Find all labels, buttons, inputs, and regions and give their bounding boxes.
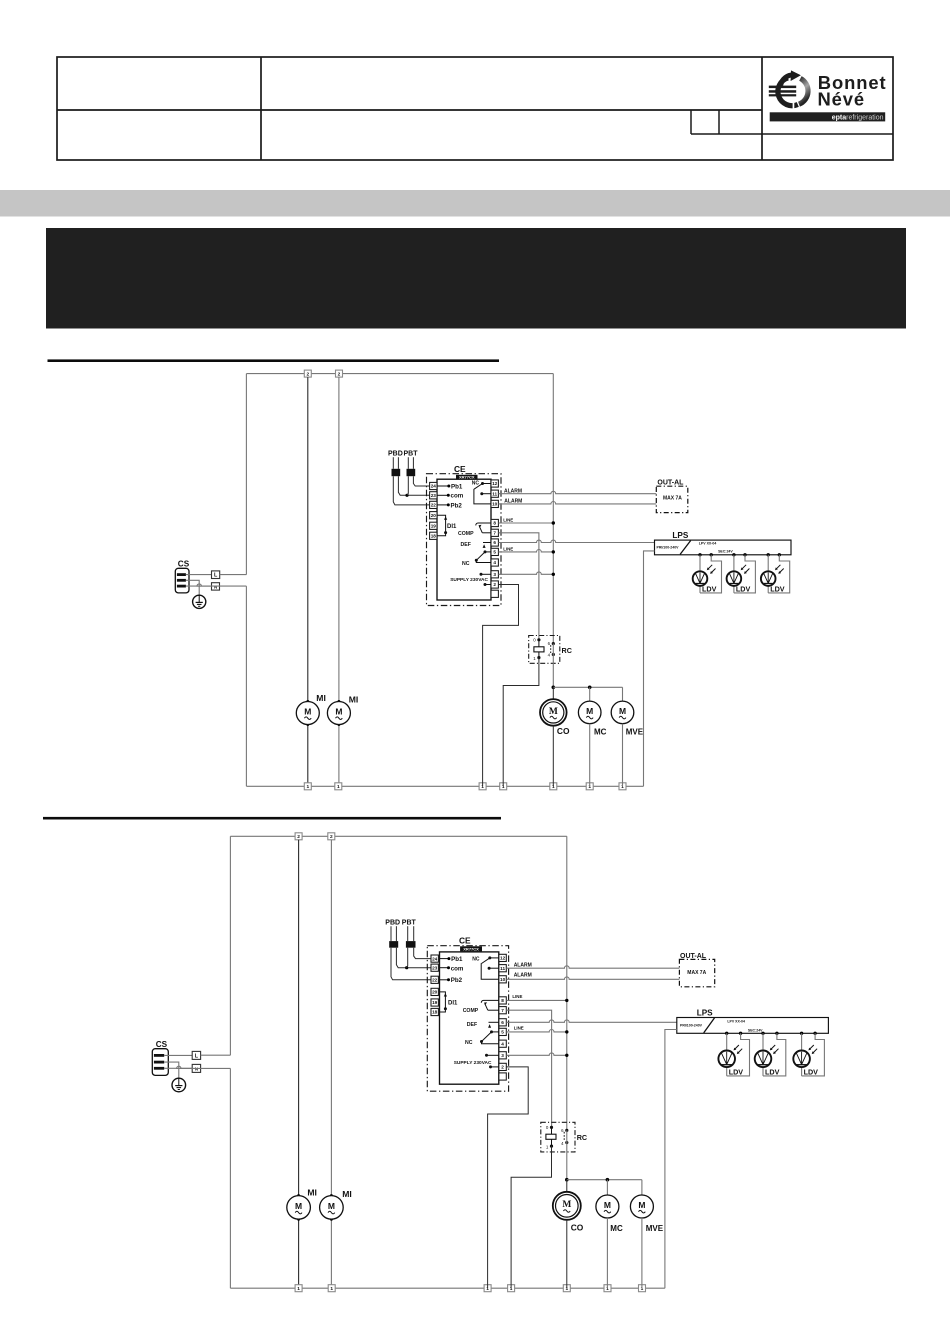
wire pin2 supply to neutral bus [488, 1067, 529, 1288]
probe PBD leads [392, 457, 394, 469]
wire pin5 LINE to main line [498, 550, 553, 552]
connector CS L pin [177, 573, 186, 576]
wire MI1 return drop [298, 1219, 300, 1288]
relay RC coil leads [538, 640, 540, 658]
title block horizontal divider [57, 109, 762, 111]
node LDV1 return dot [710, 553, 713, 556]
terminal N [192, 1064, 200, 1072]
node LDV3 return dot [778, 553, 781, 556]
svg-text:3: 3 [501, 1053, 504, 1058]
wire pin8 LINE to main line [506, 999, 567, 1001]
wire LDV3 bottom stem [801, 1067, 803, 1076]
wire alarm NO pin10 to OUT-AL [498, 502, 656, 504]
net Pb1 internal lead [440, 958, 450, 960]
svg-text:CE: CE [454, 464, 466, 474]
relay RC dash-dot box [529, 636, 560, 664]
connector CS body [152, 1049, 168, 1076]
title block small cell divider 1 [690, 110, 692, 134]
svg-text:PBT: PBT [404, 451, 419, 458]
pin blank terminal square [491, 590, 498, 597]
wire PBT to com junction [407, 948, 408, 968]
node MI1 top connection dot [306, 700, 309, 703]
module OUT-AL alarm output box [679, 959, 714, 986]
svg-text:LDV: LDV [765, 1067, 780, 1076]
relay alarm common lead pin 11 [488, 967, 499, 970]
svg-text:ALARM: ALARM [514, 972, 532, 978]
pin 18 terminal square [431, 1008, 438, 1015]
svg-text:PRI/100-240V: PRI/100-240V [680, 1023, 703, 1027]
svg-text:OUT-AL: OUT-AL [680, 953, 707, 960]
svg-text:6: 6 [493, 540, 496, 545]
svg-text:MC: MC [594, 727, 607, 736]
node motor branch dot [552, 686, 556, 690]
svg-text:4: 4 [501, 1041, 504, 1046]
pin 8 terminal square [491, 519, 498, 526]
wire CO return [566, 1220, 568, 1288]
wire pin3 supply to main line [498, 572, 553, 574]
node LDV3 feed dot [767, 553, 770, 556]
supply lead pin 3 [480, 573, 492, 576]
relay RC coil [546, 1134, 556, 1139]
controller CE dash-dot enclosure [427, 474, 502, 606]
label XR77CX model plate [460, 946, 482, 951]
lamp LDV2 [727, 565, 750, 586]
svg-text:11: 11 [500, 966, 505, 971]
svg-text:DEF: DEF [467, 1022, 477, 1028]
svg-text:4: 4 [548, 653, 551, 658]
wire alarm NC pin11 to OUT-AL [498, 491, 656, 493]
svg-text:SEC:24V: SEC:24V [748, 1029, 763, 1033]
svg-text:MI: MI [316, 693, 326, 703]
svg-text:PBT: PBT [402, 920, 417, 927]
motor MI2 (fan motor) [320, 1196, 344, 1220]
section heading rule 1 [48, 359, 500, 362]
net Pb2 internal lead [440, 979, 450, 981]
svg-text:XR77CX: XR77CX [459, 475, 475, 480]
node 1 junction square 4 [500, 783, 507, 790]
wire alarm NC pin11 to OUT-AL [506, 966, 679, 968]
relay RC coil [534, 647, 544, 652]
relay RC coil leads [551, 1127, 553, 1146]
net DI1 bracket [440, 992, 448, 1012]
svg-text:M: M [619, 706, 626, 716]
lamp LDV3 [793, 1045, 817, 1067]
svg-text:MI: MI [307, 1188, 317, 1198]
svg-text:12: 12 [500, 956, 506, 961]
svg-text:20: 20 [432, 990, 438, 995]
connector CS E pin [154, 1061, 164, 1064]
svg-text:ALARM: ALARM [504, 499, 522, 505]
controller CE dash-dot enclosure [427, 946, 508, 1091]
node MC branch dot [588, 686, 592, 690]
terminal N [212, 583, 220, 590]
controller CE inner body XR77CX [440, 952, 499, 1084]
pin 12 terminal square [491, 480, 498, 487]
svg-text:M: M [304, 706, 311, 716]
probe PBT body [406, 941, 416, 948]
net Pb1 internal lead [437, 485, 450, 487]
motor MVE evaporator fan [630, 1195, 653, 1218]
svg-text:1: 1 [533, 656, 536, 661]
wire left edge N drop [245, 586, 247, 786]
relay RC dash-dot box [541, 1122, 575, 1152]
relay COMP contact [481, 1000, 499, 1010]
node 1 junction square 1 [295, 1285, 302, 1292]
svg-text:CE: CE [459, 936, 471, 946]
svg-text:LPS: LPS [672, 531, 688, 540]
svg-text:M: M [295, 1201, 302, 1211]
wire MC return [606, 1218, 608, 1288]
wire LDV3 feed [801, 1033, 803, 1050]
wire MC feed [606, 1180, 608, 1195]
pin 4 terminal square [499, 1040, 506, 1047]
svg-text:23: 23 [432, 965, 438, 970]
svg-text:PBD: PBD [385, 920, 400, 927]
net com internal lead [440, 967, 450, 969]
node LDV1 feed dot [725, 1032, 728, 1035]
svg-text:Pb1: Pb1 [451, 956, 463, 963]
node MI2 bottom connection dot [337, 723, 340, 726]
svg-text:M: M [604, 1200, 611, 1210]
wire PBD to Pb2 input [393, 476, 429, 505]
node MI2 top connection dot [330, 1194, 333, 1197]
svg-text:10: 10 [492, 502, 498, 507]
pin 10 terminal square [499, 976, 506, 983]
wire main line through RC contact [552, 644, 554, 688]
relay RC contact dashes [550, 645, 552, 653]
relay alarm NC contact [481, 956, 499, 979]
node LDV2 feed dot [761, 1032, 764, 1035]
svg-text:19: 19 [432, 1000, 438, 1005]
pin 3 terminal square [491, 571, 498, 578]
wire N terminal to frame (hop over ground wire) [177, 1066, 231, 1068]
wire pin7 COMP output to relay RC [506, 1010, 551, 1127]
node 1 junction square 5 [563, 1285, 570, 1292]
node LDV2 return dot [743, 553, 746, 556]
wire main line vertical [552, 374, 554, 644]
wire MC feed [589, 687, 591, 701]
svg-text:com: com [451, 493, 464, 500]
pin 20 terminal square [430, 512, 437, 519]
wire N terminal to frame (hop over ground wire) [197, 584, 246, 586]
wire LPS return to neutral bus [644, 551, 655, 786]
svg-text:24: 24 [431, 484, 437, 489]
ground earth symbol [193, 595, 206, 608]
wire MVE feed [641, 1180, 643, 1195]
wire CO feed [552, 687, 554, 699]
svg-text:M: M [586, 706, 593, 716]
wire main line through RC contact [566, 1130, 568, 1179]
motor MI1 (fan motor) [296, 702, 319, 725]
node 2 junction square 1 [295, 833, 302, 840]
node MI2 bottom connection dot [330, 1218, 333, 1221]
pin 7 terminal square [499, 1007, 506, 1014]
svg-text:LDV: LDV [804, 1067, 819, 1076]
wire left edge N drop [229, 1068, 231, 1288]
svg-text:4: 4 [493, 560, 496, 565]
title block vertical divider left [260, 57, 262, 160]
wire L terminal to frame [201, 1054, 231, 1056]
wire LDV2 bottom stem [762, 1067, 764, 1076]
probe PBD body [392, 469, 401, 476]
node motor branch dot [565, 1178, 569, 1182]
svg-text:0: 0 [533, 638, 536, 643]
wire MI2 return drop [330, 1219, 332, 1288]
svg-text:LDV: LDV [736, 584, 751, 593]
node 1 junction square 3 [479, 783, 486, 790]
svg-text:7: 7 [501, 1008, 504, 1013]
svg-text:DEF: DEF [461, 542, 471, 548]
module LPS power supply box [655, 540, 792, 555]
pin 19 terminal square [431, 999, 438, 1006]
relay alarm NC contact [474, 482, 491, 504]
svg-text:NC: NC [462, 561, 470, 567]
wire MVE return [641, 1218, 643, 1288]
pin 6 terminal square [491, 539, 498, 546]
svg-text:1: 1 [297, 1286, 300, 1292]
wire CS earth pin to ground [164, 1062, 179, 1078]
svg-text:2: 2 [338, 371, 341, 377]
svg-text:20: 20 [431, 513, 437, 518]
pin 24 terminal square [430, 482, 437, 489]
node LDV2 return dot [775, 1032, 778, 1035]
output DEF lead [488, 1022, 499, 1027]
wire LDV2 feed [762, 1033, 764, 1050]
wire LDV2 return bracket [763, 1033, 786, 1076]
node 1 junction square 7 [639, 1285, 646, 1292]
connector CS N pin [154, 1067, 164, 1070]
node MI1 bottom connection dot [297, 1218, 300, 1221]
wire MI2 feed drop [338, 377, 340, 701]
motor CO compressor [553, 1192, 581, 1220]
node LDV2 feed dot [732, 553, 735, 556]
pin 11 terminal square [491, 490, 498, 497]
wire pin5 LINE to main line [506, 1030, 567, 1032]
svg-text:SUPPLY 230VAC: SUPPLY 230VAC [450, 577, 488, 583]
svg-text:19: 19 [431, 524, 437, 529]
node 1 junction square 7 [619, 783, 626, 790]
node 2 junction square 2 [328, 833, 335, 840]
svg-text:8: 8 [501, 998, 504, 1003]
connector CS N pin [177, 585, 186, 588]
pin 5 terminal square [491, 548, 498, 555]
connector CS E pin [177, 579, 186, 582]
wire CS L pin to L terminal [186, 574, 212, 576]
svg-text:NC: NC [465, 1040, 473, 1046]
net Pb2 internal lead [437, 504, 449, 506]
pin 24 terminal square [431, 955, 438, 962]
motor MI2 (fan motor) [327, 702, 350, 725]
wire PBD to com input [396, 948, 431, 968]
wire RC pin1 to neutral bus [503, 658, 539, 787]
svg-text:LPV XX-04: LPV XX-04 [727, 1020, 745, 1024]
pin 5 terminal square [499, 1028, 506, 1035]
wire MI1 feed drop [298, 840, 300, 1196]
svg-text:LPS: LPS [697, 1009, 713, 1018]
svg-text:LINE: LINE [512, 994, 522, 999]
svg-text:8: 8 [493, 521, 496, 526]
svg-text:2: 2 [306, 371, 309, 377]
svg-text:com: com [451, 965, 464, 972]
svg-text:2: 2 [501, 1065, 504, 1070]
svg-text:DI1: DI1 [448, 1000, 458, 1006]
wire LPS return to neutral bus [665, 1030, 677, 1289]
svg-text:2: 2 [330, 834, 333, 840]
wire pin6 DEF output to LPS [506, 1020, 677, 1022]
svg-text:18: 18 [432, 1010, 438, 1015]
motor MC condenser fan [578, 701, 601, 724]
wire LDV3 bottom stem [767, 586, 769, 593]
probe PBT leads [407, 926, 409, 941]
pin 23 terminal square [431, 964, 438, 971]
wire MVE return [622, 724, 624, 787]
svg-text:MI: MI [349, 695, 359, 705]
lamp LDV2 [755, 1045, 779, 1067]
svg-text:6: 6 [501, 1020, 504, 1025]
node 1 junction square 6 [586, 783, 593, 790]
wire LDV3 feed [767, 555, 769, 572]
module LPS power supply box [677, 1018, 829, 1034]
svg-text:CO: CO [571, 1223, 584, 1233]
svg-text:MAX 7A: MAX 7A [663, 496, 682, 502]
node 1 junction square 6 [604, 1285, 611, 1292]
pin 20 terminal square [431, 988, 438, 995]
relay RC pin 0 [533, 638, 540, 643]
motor MC condenser fan [596, 1195, 619, 1218]
pin 23 terminal square [430, 492, 437, 499]
node 1 junction square 4 [508, 1285, 515, 1292]
pin 3 terminal square [499, 1052, 506, 1059]
wire PBT to Pb1 input [413, 476, 429, 486]
wire main line vertical [566, 836, 568, 1130]
svg-text:MI: MI [342, 1189, 352, 1199]
relay RC pin 6 [548, 641, 555, 646]
wire MI1 return drop [307, 725, 309, 787]
wire bottom neutral bus [246, 785, 643, 787]
wire LDV1 return bracket [700, 555, 722, 593]
svg-text:LDV: LDV [702, 584, 717, 593]
svg-text:6: 6 [561, 1128, 564, 1133]
svg-text:5: 5 [493, 550, 496, 555]
motor MI1 (fan motor) [287, 1196, 311, 1220]
svg-text:M: M [549, 707, 558, 717]
svg-text:5: 5 [501, 1030, 504, 1035]
supply lead pin 2 [489, 1065, 499, 1068]
section heading rule 2 [43, 817, 501, 820]
svg-text:10: 10 [500, 977, 506, 982]
wire L terminal to frame [220, 574, 247, 576]
wire PBT to Pb1 input [414, 948, 431, 959]
svg-text:2: 2 [493, 582, 496, 587]
label XR77CX model plate [456, 475, 478, 480]
svg-text:2: 2 [297, 834, 300, 840]
pin 2 terminal square [491, 581, 498, 588]
logo Bonnet Neve euro icon [769, 70, 808, 108]
svg-text:7: 7 [493, 531, 496, 536]
svg-text:MVE: MVE [626, 727, 644, 736]
relay RC pin 6 [561, 1128, 568, 1133]
svg-text:22: 22 [431, 503, 437, 508]
svg-text:MVE: MVE [646, 1224, 664, 1233]
wire CS L pin to L terminal [164, 1054, 192, 1056]
connector CS L pin [154, 1054, 164, 1057]
wire MVE feed [622, 687, 624, 701]
svg-text:4: 4 [561, 1141, 564, 1146]
svg-text:Pb1: Pb1 [451, 483, 463, 490]
svg-text:M: M [562, 1200, 571, 1210]
svg-text:18: 18 [431, 534, 437, 539]
wire PBD to com input [398, 476, 429, 495]
wire RC pin1 to neutral bus [511, 1146, 551, 1288]
svg-text:Pb2: Pb2 [451, 502, 463, 509]
wire CO feed [566, 1180, 568, 1192]
lamp LDV1 [693, 565, 716, 586]
connector CS body [175, 568, 189, 593]
output DEF lead [483, 543, 491, 548]
node MI1 top connection dot [297, 1194, 300, 1197]
relay alarm common lead pin 11 [480, 492, 491, 495]
lamp LDV1 [718, 1045, 742, 1067]
title block small cells bottom line [691, 133, 893, 135]
pin 7 terminal square [491, 529, 498, 536]
node 2 junction square 1 [304, 370, 311, 377]
probe PBD leads [390, 926, 392, 941]
node 1 junction square 2 [328, 1285, 335, 1292]
probe PBD body [389, 941, 398, 948]
wire alarm NO pin10 to OUT-AL [506, 977, 679, 979]
svg-text:M: M [335, 706, 342, 716]
node 2 junction square 2 [336, 370, 343, 377]
svg-text:PRI/100-240V: PRI/100-240V [657, 545, 680, 549]
svg-text:NC: NC [472, 956, 480, 962]
relay NC contact pins 5-4 [475, 550, 491, 562]
pin 22 terminal square [431, 976, 438, 983]
wire LDV3 return bracket [802, 1033, 825, 1076]
svg-text:1: 1 [337, 784, 340, 790]
wire pin2 supply to neutral bus [483, 585, 519, 787]
svg-text:LINE: LINE [503, 547, 513, 552]
pin 4 terminal square [491, 559, 498, 566]
title block small cell divider 2 [718, 110, 720, 134]
wire MI2 return drop [338, 725, 340, 787]
logo epta refrigeration banner [770, 112, 886, 121]
svg-text:Pb2: Pb2 [451, 977, 463, 984]
motor CO compressor [540, 699, 567, 726]
svg-text:LINE: LINE [503, 518, 513, 523]
wire pin8 LINE to main line [498, 522, 553, 524]
svg-text:NC: NC [472, 480, 480, 486]
svg-text:PBD: PBD [388, 451, 403, 458]
svg-text:RC: RC [562, 646, 572, 655]
pin 11 terminal square [499, 965, 506, 972]
wire LDV2 return bracket [734, 555, 756, 593]
svg-text:COMP: COMP [463, 1008, 479, 1014]
pin 8 terminal square [499, 997, 506, 1004]
node com junction dot [405, 966, 408, 969]
wire LDV2 bottom stem [733, 586, 735, 593]
wire pin6 DEF output to LPS [498, 540, 654, 542]
svg-text:24: 24 [432, 956, 438, 961]
module OUT-AL alarm output box [656, 486, 688, 512]
title block outer frame [57, 57, 893, 160]
wire PBD to Pb2 input [391, 948, 431, 980]
svg-text:1: 1 [546, 1145, 549, 1150]
svg-text:LPV XX-04: LPV XX-04 [699, 542, 717, 546]
node 1 junction square 5 [550, 783, 557, 790]
pin 10 terminal square [491, 500, 498, 507]
pin blank terminal square [499, 1073, 506, 1080]
wire LDV1 bottom stem [699, 586, 701, 593]
